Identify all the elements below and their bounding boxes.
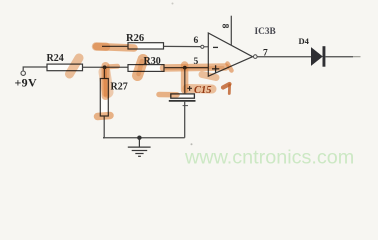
diode D4 xyxy=(311,47,323,66)
svg-text:D4: D4 xyxy=(299,36,310,46)
wire R30 to pin 5 xyxy=(164,67,208,69)
capacitor C15 bottom plate xyxy=(169,100,196,102)
wire R26 to pin 6 xyxy=(164,45,201,47)
pin 6 terminal circle xyxy=(201,45,204,48)
speck above watermark xyxy=(191,143,193,145)
svg-text:+9V: +9V xyxy=(15,75,37,89)
wire fade at right end xyxy=(353,56,361,58)
paper background xyxy=(0,0,378,171)
highlighter check mark below op-amp xyxy=(223,84,230,94)
resistor R30 xyxy=(128,65,164,72)
bottom rail wire xyxy=(103,137,185,139)
node junction ground xyxy=(137,136,141,140)
highlighter over C15 label xyxy=(187,84,212,94)
pin 8 wire xyxy=(230,16,232,46)
highlighter stroke over R24 xyxy=(70,58,80,74)
wire pin5 junction down to C15 xyxy=(184,68,186,94)
highlighter along wire R30 to op-amp + input xyxy=(164,67,226,69)
wire R26 left stub xyxy=(102,45,128,47)
speck top xyxy=(172,3,174,5)
op-amp U IC3B triangle xyxy=(208,33,252,76)
wire output to diode xyxy=(257,56,311,58)
op-amp minus sign xyxy=(213,46,218,48)
highlighter band over R30 xyxy=(138,60,144,76)
wire junction down to R27 xyxy=(103,67,105,78)
svg-text:6: 6 xyxy=(194,36,199,46)
svg-text:IC3B: IC3B xyxy=(255,27,276,37)
wire diode to right edge xyxy=(325,56,353,58)
resistor R27 xyxy=(100,79,108,117)
highlighter stroke over R27 top xyxy=(105,66,108,96)
svg-text:www.cntronics.com: www.cntronics.com xyxy=(184,147,354,169)
svg-text:R26: R26 xyxy=(126,33,144,44)
output terminal circle pin 7 xyxy=(254,55,258,59)
highlighter dash right of R24 junction xyxy=(109,64,118,70)
highlighter band over R27 bottom xyxy=(98,116,111,117)
small dash below C15 xyxy=(183,105,188,107)
node junction R24/R27/R30 xyxy=(103,65,107,69)
C15 plus sign xyxy=(187,86,192,91)
capacitor C15 top plate (box) xyxy=(171,94,195,98)
+9V terminal circle xyxy=(21,71,25,75)
svg-text:R24: R24 xyxy=(47,53,64,64)
resistor R26 xyxy=(128,43,164,49)
ground symbol xyxy=(128,138,151,157)
resistor R24 xyxy=(47,64,83,71)
wire +9V to R24 xyxy=(23,67,47,71)
wire R24 to junction to R30 xyxy=(83,66,129,68)
pin 6 stub to op-amp xyxy=(204,46,208,48)
node junction pin5 / C15 xyxy=(183,66,187,70)
highlighter overlay xyxy=(70,47,232,117)
highlighter vertical pin5 to C15 xyxy=(181,65,189,90)
wire C15 down to bottom rail xyxy=(184,101,186,138)
svg-text:8: 8 xyxy=(219,24,229,29)
highlighter stroke over R26 left wire xyxy=(96,47,134,49)
highlighter over C15 top-left plate xyxy=(159,92,177,98)
highlighter comma stroke inside op-amp xyxy=(228,64,232,71)
op-amp plus sign xyxy=(212,65,219,72)
highlighter band under op-amp bottom edge xyxy=(202,75,216,78)
wire R27 to bottom rail xyxy=(103,116,104,138)
